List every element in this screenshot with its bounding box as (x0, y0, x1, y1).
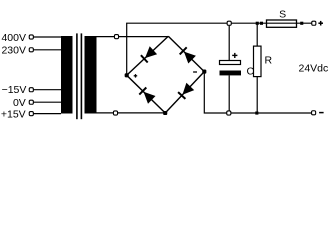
svg-text:0V: 0V (13, 97, 26, 109)
svg-text:R: R (265, 54, 273, 66)
svg-text:400V: 400V (1, 32, 26, 44)
svg-text:−15V: −15V (2, 84, 27, 96)
svg-text:C: C (247, 66, 255, 78)
svg-text:24Vdc: 24Vdc (299, 62, 329, 74)
svg-text:S: S (279, 9, 286, 21)
svg-text:230V: 230V (1, 45, 26, 57)
svg-text:+15V: +15V (1, 108, 26, 120)
